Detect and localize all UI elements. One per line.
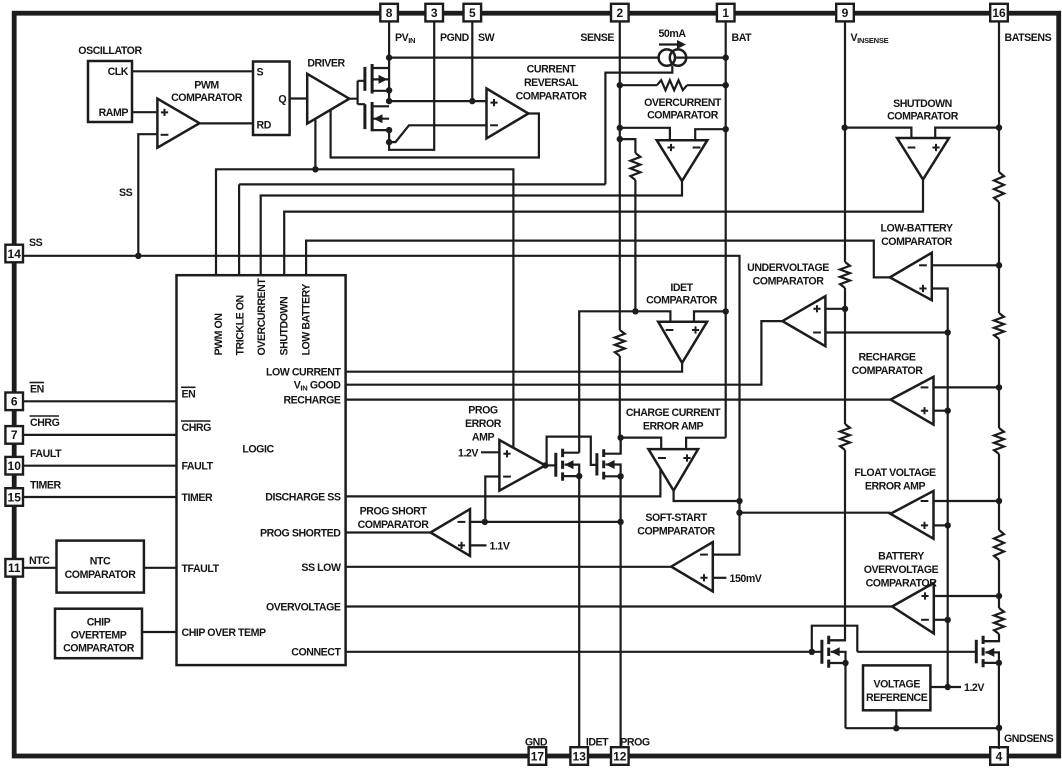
wire overcurrent comparator output to logic bus xyxy=(261,181,682,275)
pin 6 EN xyxy=(5,393,23,411)
wire xyxy=(998,202,1000,313)
svg-text:CHARGE CURRENT: CHARGE CURRENT xyxy=(626,407,721,419)
wire IDET - input xyxy=(579,311,670,452)
wire 1.1V to prog short + xyxy=(470,544,487,546)
svg-text:OVERCURRENT: OVERCURRENT xyxy=(256,278,268,356)
wire SS from pin 14 xyxy=(23,256,740,555)
wire PVIN down xyxy=(388,22,390,58)
svg-text:COPMPARATOR: COPMPARATOR xyxy=(637,526,715,538)
wire prog short - to PROG net xyxy=(470,521,621,523)
wire undervoltage - to 1.2V net xyxy=(825,331,947,333)
wire CLK to S xyxy=(132,70,253,72)
pin 3 PGND xyxy=(425,4,443,22)
wire PWM comparator - from SS line xyxy=(138,134,157,256)
svg-text:SS: SS xyxy=(29,237,43,249)
resistor R2 IDET detect xyxy=(630,153,640,180)
svg-text:SENSE: SENSE xyxy=(580,32,614,44)
svg-text:OVERVOLTAGE: OVERVOLTAGE xyxy=(864,564,939,576)
pin 10 FAULT xyxy=(5,457,23,475)
svg-text:PWM: PWM xyxy=(194,80,219,92)
svg-text:10: 10 xyxy=(8,459,22,473)
ground rail to GNDSENS xyxy=(846,727,1000,729)
svg-text:COMPARATOR: COMPARATOR xyxy=(881,236,953,248)
svg-text:4: 4 xyxy=(996,749,1003,763)
svg-text:PROG: PROG xyxy=(468,405,498,417)
wire to float voltage error amp output xyxy=(740,512,891,514)
wire undervoltage + to VINSENSE xyxy=(825,308,845,310)
svg-text:8: 8 xyxy=(386,6,393,20)
svg-text:REVERSAL: REVERSAL xyxy=(524,77,579,89)
wire low-battery - to BATSENS xyxy=(932,264,999,266)
pin 15 TIMER xyxy=(5,488,23,506)
svg-text:RAMP: RAMP xyxy=(99,107,129,119)
svg-text:CHIP OVER TEMP: CHIP OVER TEMP xyxy=(182,627,267,639)
wire shutdown output to logic bus xyxy=(284,180,923,276)
pin 17 GND xyxy=(529,747,547,765)
wire 150mV to soft-start + xyxy=(713,577,727,579)
wire TRICKLE ON bus xyxy=(238,184,240,275)
wire driver to PWM ON bus xyxy=(314,119,316,169)
svg-text:SS: SS xyxy=(119,187,133,199)
pin 2 SENSE xyxy=(611,4,629,22)
svg-text:PWM ON: PWM ON xyxy=(213,313,225,355)
svg-text:BAT: BAT xyxy=(732,32,753,44)
svg-text:NTC: NTC xyxy=(90,556,111,568)
wire shutdown - to VINSENSE xyxy=(845,128,912,138)
node SW xyxy=(471,22,473,102)
svg-text:6: 6 xyxy=(11,395,18,409)
pin 8 PVIN xyxy=(380,4,398,22)
pin 14 SS xyxy=(5,245,23,263)
svg-text:AMP: AMP xyxy=(472,432,495,444)
wire VINSENSE down xyxy=(844,22,846,263)
wire driver output to gates xyxy=(349,81,365,104)
wire RAMP to PWM comparator + xyxy=(132,111,157,113)
svg-text:SHUTDOWN: SHUTDOWN xyxy=(893,98,952,110)
wire M3 source to ground rail xyxy=(844,663,846,728)
wire Q to driver xyxy=(290,97,308,99)
svg-text:OVERTEMP: OVERTEMP xyxy=(71,630,127,642)
wire M4 source to GNDSENS xyxy=(998,663,1000,749)
wire PWM ON bus xyxy=(216,169,513,447)
svg-text:16: 16 xyxy=(992,6,1006,20)
wire charge current error amp output xyxy=(674,491,740,501)
svg-text:BATSENS: BATSENS xyxy=(1005,32,1052,44)
wire DISCHARGE SS to charge current error amp xyxy=(346,469,661,497)
svg-text:12: 12 xyxy=(613,749,627,763)
wire NMOS source to current reversal comparator - xyxy=(389,125,486,142)
pin 9 VINSENSE xyxy=(836,4,854,22)
wire VIN GOOD from undervoltage comparator xyxy=(346,321,783,385)
svg-text:RECHARGE: RECHARGE xyxy=(858,352,915,364)
resistor R10 xyxy=(994,608,1004,634)
wire battery overvoltage + to BATSENS xyxy=(934,595,999,597)
wire recharge - to BATSENS xyxy=(934,386,1000,388)
resistor R1 SENSE-BAT xyxy=(620,84,657,86)
svg-text:CURRENT: CURRENT xyxy=(527,64,577,76)
wire xyxy=(998,454,1000,530)
wire xyxy=(998,560,1000,608)
svg-text:SOFT-START: SOFT-START xyxy=(645,512,707,524)
wire SENSE down xyxy=(619,22,621,331)
pin 4 GNDSENS xyxy=(990,747,1008,765)
svg-text:VOLTAGE: VOLTAGE xyxy=(873,679,920,691)
svg-text:CLK: CLK xyxy=(108,66,129,78)
svg-text:COMPARATOR: COMPARATOR xyxy=(171,92,243,104)
wire PVIN to BAT rail xyxy=(389,56,726,58)
resistor R5 VINSENSE lower xyxy=(840,424,850,450)
wire BATSENS to M4 drain xyxy=(984,634,999,641)
svg-text:SS LOW: SS LOW xyxy=(301,562,341,574)
wire PROG net down to pin 12 xyxy=(619,476,621,747)
svg-text:COMPARATOR: COMPARATOR xyxy=(516,91,588,103)
svg-text:1.2V: 1.2V xyxy=(964,682,984,694)
svg-text:1.1V: 1.1V xyxy=(490,540,510,552)
svg-text:COMPARATOR: COMPARATOR xyxy=(63,643,135,655)
svg-text:CHIP: CHIP xyxy=(87,617,111,629)
svg-text:UNDERVOLTAGE: UNDERVOLTAGE xyxy=(747,262,829,274)
wire current source bottom to trickle bus xyxy=(605,66,672,185)
wire overcurrent + to SENSE xyxy=(620,128,670,140)
wire gate lead M1 xyxy=(545,464,556,466)
svg-text:DRIVER: DRIVER xyxy=(307,58,345,70)
transistor M3 connect switch xyxy=(820,640,823,664)
wire BAT down xyxy=(725,22,727,438)
wire charge current error amp - to mirror xyxy=(621,438,662,450)
svg-text:COMPARATOR: COMPARATOR xyxy=(852,365,924,377)
wire IDET net down to pin 13 xyxy=(578,476,580,747)
svg-text:CONNECT: CONNECT xyxy=(291,647,341,659)
wire overcurrent - to BAT xyxy=(695,129,726,140)
wire shutdown + to BATSENS xyxy=(935,128,999,138)
svg-text:ERROR AMP: ERROR AMP xyxy=(643,421,704,433)
transistor M4 divider switch xyxy=(975,640,978,664)
svg-text:CHRG: CHRG xyxy=(182,422,212,434)
svg-text:2: 2 xyxy=(616,6,623,20)
voltage reference block xyxy=(863,665,930,710)
resistor R7 xyxy=(994,313,1004,339)
SR latch xyxy=(253,62,290,136)
svg-text:CHRG: CHRG xyxy=(30,417,60,429)
wire IDET + to BAT xyxy=(694,311,726,321)
wire resistor down to IDET comparator - xyxy=(634,180,636,311)
svg-text:15: 15 xyxy=(8,490,22,504)
logic block xyxy=(177,275,346,665)
wire BATSENS down xyxy=(998,22,1000,173)
wire VINSENSE mid xyxy=(844,288,846,424)
svg-text:DISCHARGE SS: DISCHARGE SS xyxy=(265,491,341,503)
svg-text:LOW-BATTERY: LOW-BATTERY xyxy=(881,223,953,235)
wire LOW BATTERY bus xyxy=(306,241,890,278)
svg-text:LOW CURRENT: LOW CURRENT xyxy=(266,367,341,379)
chip overtemp comparator block xyxy=(55,609,142,659)
wire current reversal comparator output to driver xyxy=(331,110,539,158)
svg-text:LOW BATTERY: LOW BATTERY xyxy=(300,284,312,356)
svg-text:BATTERY: BATTERY xyxy=(878,551,924,563)
svg-text:50mA: 50mA xyxy=(658,28,686,40)
svg-text:PROG SHORT: PROG SHORT xyxy=(360,506,428,518)
svg-text:S: S xyxy=(257,66,264,78)
wire RECHARGE from recharge comparator xyxy=(346,399,891,401)
svg-text:3: 3 xyxy=(431,6,438,20)
svg-text:14: 14 xyxy=(8,247,22,261)
svg-text:RECHARGE: RECHARGE xyxy=(283,394,340,406)
svg-text:GND: GND xyxy=(525,737,548,749)
wire charge current error amp + to BAT xyxy=(686,438,726,449)
wire OVERVOLTAGE from battery overvoltage comparator xyxy=(346,605,893,607)
svg-text:5: 5 xyxy=(469,6,476,20)
pin 11 NTC xyxy=(5,559,23,577)
svg-text:REFERENCE: REFERENCE xyxy=(866,692,928,704)
svg-text:FAULT: FAULT xyxy=(30,448,62,460)
resistor R6 xyxy=(994,172,1004,202)
svg-text:TIMER: TIMER xyxy=(182,492,214,504)
svg-text:ERROR AMP: ERROR AMP xyxy=(865,481,926,493)
svg-text:PGND: PGND xyxy=(440,32,470,44)
svg-text:PROG SHORTED: PROG SHORTED xyxy=(260,527,341,539)
svg-text:SW: SW xyxy=(478,32,495,44)
svg-text:COMPARATOR: COMPARATOR xyxy=(358,519,430,531)
svg-text:OVERCURRENT: OVERCURRENT xyxy=(644,97,722,109)
svg-text:ERROR: ERROR xyxy=(465,418,502,430)
pin 16 BATSENS xyxy=(990,4,1008,22)
svg-text:COMPARATOR: COMPARATOR xyxy=(65,569,137,581)
svg-text:FAULT: FAULT xyxy=(182,461,214,473)
pin 7 CHRG xyxy=(5,426,23,444)
wire vref bottom to ground rail xyxy=(895,710,897,728)
wire CONNECT to mirror gates xyxy=(346,651,822,653)
wire recharge + to 1.2V net xyxy=(934,410,948,412)
svg-text:1.2V: 1.2V xyxy=(458,447,478,459)
svg-text:FLOAT VOLTAGE: FLOAT VOLTAGE xyxy=(854,467,936,479)
pin 12 PROG xyxy=(611,747,629,765)
node prog error amp output xyxy=(542,462,548,468)
wire low-battery + to 1.2V net xyxy=(932,289,948,688)
oscillator block xyxy=(88,61,132,122)
svg-text:GNDSENS: GNDSENS xyxy=(1004,733,1054,745)
svg-text:EN: EN xyxy=(30,384,44,396)
svg-text:7: 7 xyxy=(11,428,18,442)
wire mirror gate over-the-top xyxy=(812,626,858,652)
transistor M2 xyxy=(595,453,598,475)
svg-text:Q: Q xyxy=(278,93,286,105)
wire mirror gate tie xyxy=(547,437,597,465)
svg-text:9: 9 xyxy=(842,6,849,20)
resistor R4 VINSENSE upper xyxy=(840,262,850,288)
svg-text:LOGIC: LOGIC xyxy=(242,444,274,456)
svg-text:SHUTDOWN: SHUTDOWN xyxy=(278,297,290,356)
NTC comparator block xyxy=(23,567,57,569)
svg-text:COMPARATOR: COMPARATOR xyxy=(753,276,825,288)
svg-text:OSCILLATOR: OSCILLATOR xyxy=(78,45,142,57)
svg-text:TRICKLE ON: TRICKLE ON xyxy=(235,295,247,355)
svg-text:TFAULT: TFAULT xyxy=(182,563,220,575)
pin 1 BAT xyxy=(717,4,735,22)
svg-text:RD: RD xyxy=(257,120,272,132)
wire TIMER xyxy=(23,496,177,498)
wire EN xyxy=(23,400,177,402)
wire xyxy=(998,339,1000,428)
pin 13 IDET xyxy=(570,747,588,765)
svg-text:PROG: PROG xyxy=(620,737,650,749)
wire SENSE tap to IDET resistor xyxy=(620,139,636,153)
pin 5 SW xyxy=(464,4,482,22)
wire float voltage + to 1.2V net xyxy=(934,524,948,526)
resistor R3 on SENSE-PROG net xyxy=(615,330,625,356)
wire PGND down xyxy=(389,22,434,150)
transistor Q2 NMOS xyxy=(363,104,366,129)
wire 1.2V to prog error amp + xyxy=(481,451,499,453)
svg-text:11: 11 xyxy=(8,561,21,575)
wire PROG SHORTED xyxy=(346,531,431,533)
svg-text:IDET: IDET xyxy=(670,282,693,294)
svg-text:COMPARATOR: COMPARATOR xyxy=(647,110,719,122)
transistor Q1 PMOS xyxy=(363,67,366,91)
transistor M1 xyxy=(554,453,557,477)
svg-text:IDET: IDET xyxy=(586,737,609,749)
resistor R9 xyxy=(994,530,1004,560)
wire vref output 1.2V xyxy=(930,686,961,688)
svg-text:TIMER: TIMER xyxy=(30,480,62,492)
svg-text:COMPARATOR: COMPARATOR xyxy=(646,295,718,307)
wire FAULT xyxy=(23,465,177,467)
svg-text:17: 17 xyxy=(531,749,545,763)
svg-text:NTC: NTC xyxy=(29,555,50,567)
svg-text:COMPARATOR: COMPARATOR xyxy=(887,111,959,123)
wire CHRG xyxy=(23,434,177,436)
wire SS LOW from soft-start comparator xyxy=(346,566,672,568)
wire float voltage - to BATSENS xyxy=(934,500,1000,502)
wire LOW CURRENT / IDET comparator output xyxy=(346,363,682,372)
resistor R8 xyxy=(994,428,1004,454)
svg-text:EN: EN xyxy=(182,388,196,400)
wire battery overvoltage - to 1.2V net xyxy=(934,619,948,621)
svg-text:OVERVOLTAGE: OVERVOLTAGE xyxy=(266,601,341,613)
svg-text:13: 13 xyxy=(573,749,587,763)
svg-text:150mV: 150mV xyxy=(730,573,762,585)
wire prog error amp - feedback xyxy=(485,477,499,522)
svg-text:1: 1 xyxy=(722,6,729,20)
wire PWM comparator output to RD xyxy=(200,122,254,124)
wire VINSENSE to M3 drain xyxy=(830,450,845,640)
